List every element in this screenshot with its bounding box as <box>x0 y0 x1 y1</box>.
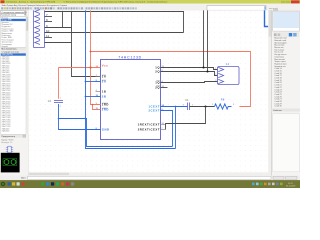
svg-text:GND: GND <box>102 127 110 131</box>
junction dot Vcc (90.5,67.5) <box>89 66 91 68</box>
svg-text:Свойства: Свойства <box>273 109 283 112</box>
wire REXT return <box>166 107 206 130</box>
wire Vcc rail y51.5 to R8 <box>91 52 251 107</box>
wire pin9 row <box>45 27 72 29</box>
maximize button <box>286 1 291 3</box>
connector J1 (left pin header) <box>34 10 45 48</box>
IC U1 right pin 1CEXT (pin 14) <box>161 106 166 108</box>
connector J4 chevron pins <box>218 67 223 83</box>
svg-text:2Q: 2Q <box>155 69 160 73</box>
wire 1Q to J4 pin1 <box>161 68 218 70</box>
left panel list 2 <box>1 53 26 134</box>
wire selected net top-right (thick blue) <box>265 10 269 26</box>
wire Vcc horizontal into Vcc pin <box>59 67 101 69</box>
wire vertical A x203.5 <box>203 10 205 67</box>
right panel lower header <box>272 109 300 112</box>
svg-text:J4: J4 <box>226 62 230 66</box>
wire 1CEXT drop x175.5 <box>175 107 177 149</box>
schematic vertical scrollbar <box>268 10 271 172</box>
app icon <box>1 0 5 3</box>
svg-text:Слой 30: Слой 30 <box>274 105 281 108</box>
junction dot blue (85.5,96.5) <box>85 96 87 98</box>
wire Vcc branch to 2RD <box>93 105 101 110</box>
wire vertical B x207.5 <box>207 10 209 71</box>
IC U1 left pin GND (pin 8) <box>96 129 101 131</box>
IC U1 right pin 1Q (pin 4) <box>161 82 166 84</box>
component preview box <box>1 153 20 173</box>
IC U1 left pin 1RD (pin 3) <box>96 104 101 106</box>
wire 2Q to J4 pin2 <box>161 72 218 76</box>
toolbar <box>0 7 300 11</box>
wire blue vertical bus x85.5 <box>86 10 176 148</box>
left panel scrollbar <box>26 16 28 133</box>
svg-text:1B: 1B <box>102 89 107 93</box>
wire net pin10 long horizontal <box>45 32 184 34</box>
status bar <box>0 176 300 180</box>
junction dot (207.5,71.5) <box>206 70 208 72</box>
svg-text:Предпросмотр: Предпросмотр <box>1 136 15 138</box>
wire V1 vertical x71.5 into IC pin 1A <box>72 11 101 77</box>
wire 1CEXT to C1 <box>161 106 188 108</box>
mini symbol preview <box>8 146 11 153</box>
junction dot (205.5,106.5) <box>204 105 206 107</box>
svg-text:2REXT/CEXT: 2REXT/CEXT <box>138 127 160 131</box>
wire stub 2Qbar <box>161 87 168 89</box>
svg-text:Имя:: Имя: <box>21 178 26 180</box>
IC U1 left pin Vcc (pin 16) <box>96 67 101 69</box>
IC U1 right pin 2REXT/CEXT (pin 7) <box>161 129 166 131</box>
overline marks on A and RD pins <box>102 74 106 76</box>
minimize button <box>281 1 286 3</box>
schematic horizontal scrollbar <box>29 172 269 175</box>
wire C1 right lead to junction and R8 <box>190 106 215 108</box>
IC U1 right pin 2CEXT (pin 6) <box>161 110 166 112</box>
wire net pin6 top bus <box>45 12 184 33</box>
right panel list box <box>273 11 299 31</box>
menu bar <box>0 4 300 7</box>
wire 1Qbar to J4 pin3 <box>161 82 218 83</box>
wire GND net from C2 to GND pin <box>59 104 101 130</box>
left panel info header <box>1 135 26 138</box>
IC U1 right pin 2Q (pin 12) <box>161 87 166 89</box>
resistor R8 zigzag <box>215 104 232 109</box>
IC U1 74HC123D body <box>101 60 161 140</box>
svg-text:2CEXT: 2CEXT <box>148 108 160 112</box>
window background <box>0 0 300 188</box>
left panel combo 2 <box>1 14 26 17</box>
junction dot blue (175.5,106.5) <box>175 106 177 108</box>
left panel combo 1 <box>1 11 26 14</box>
left panel component list <box>1 16 26 47</box>
IC U1 left pin 1B (pin 2) <box>96 91 101 93</box>
schematic canvas <box>29 10 269 172</box>
wire stub pin11 <box>45 37 53 39</box>
wire stub pin7 <box>45 16 53 18</box>
wire Vcc drop to C2 <box>58 68 60 99</box>
title bar <box>0 0 300 4</box>
close button <box>291 0 300 3</box>
capacitor C2 plates <box>54 101 63 103</box>
junction dot blue (58.5,118.5) <box>58 118 60 120</box>
right panel mini toolbar <box>273 32 299 37</box>
wire blue stub to 2B <box>86 96 101 98</box>
junction dot blue (85.5,118.5) <box>85 118 87 120</box>
svg-text:Схематика - [Схема 1 - Одновиб: Схематика - [Схема 1 - Одновибратор 74HC… <box>6 1 168 4</box>
svg-text:Выводов: 16: Выводов: 16 <box>1 142 12 144</box>
svg-text:2B: 2B <box>102 94 107 98</box>
right panel lower box <box>273 114 299 172</box>
left panel section header <box>1 48 26 51</box>
capacitor C1 plates <box>188 103 190 111</box>
wire stub pin8 <box>45 21 53 23</box>
right panel <box>272 10 300 175</box>
svg-text:1REXT/CEXT: 1REXT/CEXT <box>138 122 160 126</box>
svg-text:74AC04D: 74AC04D <box>2 130 10 133</box>
wire Vcc vertical x90.5 <box>91 10 101 104</box>
IC U1 right pin 1Q (pin 13) <box>161 67 166 69</box>
wire blue branch y118.5 <box>59 119 173 147</box>
svg-text:Файл Правка Вид Объекты Провер: Файл Правка Вид Объекты Проверка Библиот… <box>2 4 68 7</box>
overline marks on Qbar pins <box>156 80 160 82</box>
svg-text:Vcc: Vcc <box>102 64 108 68</box>
toolbar search field <box>207 6 266 11</box>
connector J4 body <box>218 67 240 85</box>
left panel background <box>0 10 29 175</box>
junction dot Vcc (92.5,104.5) <box>92 104 94 106</box>
svg-text:05.11.2019: 05.11.2019 <box>286 185 295 187</box>
svg-text:74HC123D: 74HC123D <box>118 55 142 59</box>
wire 2CEXT drop x172.5 <box>161 111 173 147</box>
IC U1 left pin 2A (pin 9) <box>96 81 101 83</box>
IC U1 right pin 2Q (pin 5) <box>161 71 166 73</box>
IC U1 right pin 1REXT/CEXT (pin 15) <box>161 124 166 126</box>
wire blue stub to 2A <box>86 81 101 83</box>
wire staircase vertical x62.5 <box>62 11 64 28</box>
junction dot Vcc (90.5,51.5) <box>90 51 92 53</box>
IC U1 left pin 1A (pin 1) <box>96 76 101 78</box>
IC U1 left pin 2B (pin 10) <box>96 96 101 98</box>
svg-text:R8: R8 <box>221 99 225 102</box>
junction dot (203.5,67.5) <box>202 66 204 68</box>
start button <box>1 182 5 186</box>
taskbar <box>0 180 300 188</box>
junction dot blue (85.5,81.5) <box>85 81 87 83</box>
IC U1 left pin 2RD (pin 11) <box>96 109 101 111</box>
wire pin12 row <box>45 42 72 44</box>
